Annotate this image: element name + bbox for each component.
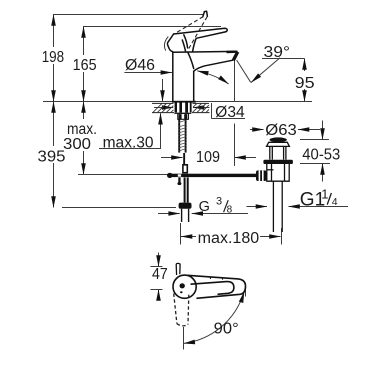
- svg-text:max.180: max.180: [198, 230, 260, 247]
- svg-text:109: 109: [196, 149, 220, 166]
- svg-text:Ø34: Ø34: [215, 104, 245, 121]
- svg-text:165: 165: [73, 57, 97, 74]
- svg-text:Ø46: Ø46: [125, 57, 155, 74]
- svg-text:Ø63: Ø63: [265, 122, 297, 139]
- svg-text:8: 8: [227, 205, 233, 216]
- svg-text:3: 3: [216, 196, 222, 208]
- svg-text:300: 300: [63, 136, 91, 153]
- svg-text:198: 198: [42, 49, 64, 66]
- svg-text:39°: 39°: [264, 44, 291, 61]
- svg-text:90°: 90°: [214, 320, 239, 337]
- svg-text:395: 395: [38, 149, 66, 166]
- svg-text:G: G: [199, 199, 210, 215]
- svg-text:4: 4: [332, 196, 338, 208]
- svg-text:47: 47: [152, 266, 168, 283]
- svg-text:1: 1: [321, 186, 328, 201]
- svg-text:max.30: max.30: [103, 135, 154, 152]
- svg-text:95: 95: [295, 75, 315, 92]
- svg-text:40-53: 40-53: [302, 147, 340, 164]
